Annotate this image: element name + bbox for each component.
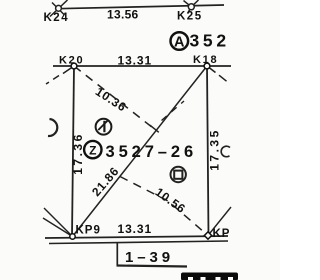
node KP9 point with boundary rays bbox=[43, 208, 73, 237]
symbol: circled square marker bbox=[171, 167, 186, 182]
wire: dashed perpendicular to KP8 (10.56) bbox=[120, 177, 208, 236]
symbol: right-half circle arc at left bbox=[48, 119, 57, 136]
svg-text:17.35: 17.35 bbox=[208, 128, 222, 171]
stamp: black label bottom right bbox=[181, 273, 238, 280]
svg-text:13.56: 13.56 bbox=[107, 8, 139, 22]
wire: parcel right edge K18-KP8 bbox=[207, 66, 209, 236]
svg-text:A: A bbox=[174, 34, 185, 50]
svg-text:13.31: 13.31 bbox=[118, 222, 153, 236]
svg-text:13.31: 13.31 bbox=[118, 54, 153, 68]
svg-text:1–39: 1–39 bbox=[125, 249, 174, 266]
junction tick at foot J bbox=[150, 125, 159, 132]
svg-text:17.36: 17.36 bbox=[71, 132, 85, 175]
wire: dashed perpendicular from K20 (10.36) bbox=[74, 66, 156, 131]
svg-text:K24: K24 bbox=[44, 12, 70, 24]
wire: solid diagonal KP9-K18 (21.86) bbox=[73, 66, 208, 237]
wire: parcel top edge K20-K18 bbox=[53, 65, 231, 67]
svg-text:Z: Z bbox=[89, 143, 96, 157]
table: bottom box with 1-39 bbox=[117, 243, 188, 267]
node K25 survey point symbol bbox=[184, 0, 199, 14]
node K18 point bbox=[204, 63, 210, 69]
node KP8 diamond point with ray bbox=[208, 207, 231, 236]
wire: short dashed stub above J toward K18 bbox=[162, 101, 185, 121]
wire: dashed ray SW of K20 (outside parcel) bbox=[46, 66, 74, 84]
wire: parcel left edge K20-KP9 bbox=[72, 66, 74, 237]
symbol: circle with diagonal stroke bbox=[96, 119, 112, 135]
node K24 survey point symbol bbox=[50, 0, 68, 17]
svg-text:KP: KP bbox=[213, 228, 231, 240]
wire: dashed ray SE of K18 (outside parcel) bbox=[207, 66, 227, 81]
wire: lower road line bbox=[49, 241, 228, 244]
node K20 point bbox=[71, 63, 77, 69]
svg-text:352: 352 bbox=[190, 31, 230, 51]
svg-text:3527–26: 3527–26 bbox=[106, 143, 198, 161]
symbol: small C arc at right bbox=[221, 146, 230, 157]
node Z: circled-Z parcel marker bbox=[84, 141, 101, 158]
svg-text:K25: K25 bbox=[177, 11, 203, 23]
wire: parcel bottom edge through KP9-KP8 bbox=[45, 236, 228, 238]
wire: top survey baseline K24-K25 bbox=[57, 5, 224, 9]
node A: circled-A parcel marker bbox=[171, 32, 189, 50]
svg-text:KP9: KP9 bbox=[76, 225, 101, 237]
